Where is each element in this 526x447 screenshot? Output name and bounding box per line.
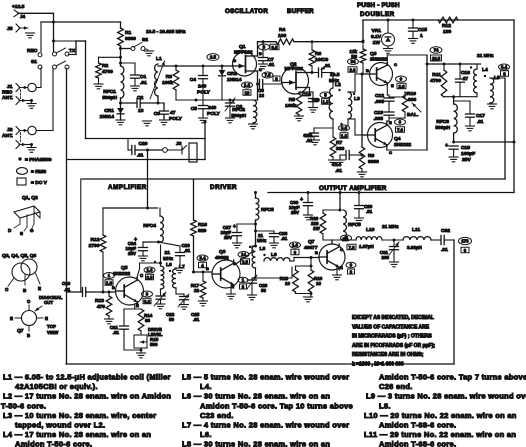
svg-text:Q1: Q1 [239,44,246,50]
svg-text:.01: .01 [441,247,448,253]
svg-text:RFC2: RFC2 [232,107,245,113]
svg-text:C: C [389,150,392,155]
svg-text:13: 13 [138,108,144,114]
svg-text:50: 50 [261,288,267,293]
svg-text:7.6: 7.6 [397,127,404,132]
svg-text:21: 21 [165,250,171,256]
svg-text:S2: S2 [142,37,148,43]
svg-text:1.8: 1.8 [341,133,348,138]
svg-text:.005: .005 [373,116,383,122]
svg-text:9.1V: 9.1V [371,34,382,40]
svg-text:L8.: L8. [379,401,391,410]
svg-text:CR1: CR1 [104,108,114,114]
svg-text:7.6: 7.6 [349,245,356,250]
svg-text:R4: R4 [279,27,286,33]
svg-text:1.3: 1.3 [147,268,154,273]
svg-text:R2: R2 [102,63,109,69]
svg-text:DOUBLER: DOUBLER [360,11,395,18]
svg-text:E: E [10,316,13,321]
svg-text:330: 330 [336,146,344,152]
svg-text:+: + [445,143,448,149]
svg-text:10: 10 [245,90,250,95]
svg-text:280: 280 [381,255,389,260]
svg-text:Amidon T-68-6 core.: Amidon T-68-6 core. [379,421,456,430]
svg-text:L2: L2 [335,82,341,88]
svg-text:900: 900 [408,97,416,103]
svg-text:40082: 40082 [215,255,229,261]
svg-text:S1: S1 [31,59,37,65]
svg-text:240: 240 [208,105,216,111]
svg-text:2.5: 2.5 [210,55,217,60]
svg-text:C: C [140,273,143,278]
svg-text:74: 74 [434,48,439,53]
svg-text:L8: L8 [260,246,266,252]
svg-text:RFC3: RFC3 [436,119,449,125]
svg-text:6800: 6800 [125,36,136,42]
svg-text:100k: 100k [162,80,173,86]
svg-text:C10: C10 [302,92,311,98]
svg-text:L7 — 4 turns No. 28 enam. wire: L7 — 4 turns No. 28 enam. wire wound ove… [182,421,349,430]
svg-text:MPF102: MPF102 [234,50,253,56]
svg-text:E: E [391,83,394,88]
svg-text:173: 173 [461,239,469,244]
svg-text:Amidon T-68-6 core.: Amidon T-68-6 core. [379,440,456,447]
svg-text:Amidon T-50-6 core. Tap 7 tur: Amidon T-50-6 core. Tap 7 turns above [379,373,526,382]
svg-text:100k: 100k [285,103,296,109]
svg-text:J1: J1 [7,84,13,90]
svg-text:R10: R10 [407,91,416,97]
svg-text:500: 500 [150,342,158,347]
svg-text:C2: C2 [137,95,144,101]
svg-text:21 MHz: 21 MHz [382,224,399,230]
svg-text:1.0: 1.0 [292,243,299,248]
svg-text:L4: L4 [482,67,488,73]
svg-text:2.6: 2.6 [399,84,406,89]
svg-text:C: C [27,299,30,304]
svg-text:3.4: 3.4 [501,65,508,70]
svg-text:4700: 4700 [430,78,441,84]
svg-text:C13: C13 [374,110,383,116]
svg-text:MPF102: MPF102 [285,66,304,72]
svg-text:.01: .01 [184,248,191,253]
svg-text:2.5: 2.5 [147,275,154,280]
svg-text:500μH: 500μH [102,95,117,101]
svg-text:3.66μH: 3.66μH [407,245,422,250]
svg-text:500μH: 500μH [231,113,246,119]
svg-text:R7: R7 [336,140,343,146]
svg-text:1N914: 1N914 [227,77,242,83]
svg-text:R11: R11 [432,72,441,78]
svg-text:C26 end.: C26 end. [379,382,413,391]
svg-text:REC: REC [27,48,38,54]
svg-text:100: 100 [278,33,286,39]
svg-text:C: C [340,247,343,252]
svg-text:47: 47 [170,110,176,116]
svg-text:RFC4: RFC4 [143,223,156,229]
svg-text:R13: R13 [95,298,104,304]
svg-text:21 MHz: 21 MHz [477,53,494,59]
svg-text:RFC5: RFC5 [261,207,274,213]
svg-text:L1 — 6.05- to 12.5-μH adjustab: L1 — 6.05- to 12.5-μH adjustable coil (M… [3,373,171,382]
svg-text:POLY: POLY [197,90,211,96]
svg-text:DRIVER: DRIVER [210,184,237,191]
svg-text:C5: C5 [191,106,198,112]
svg-text:G: G [233,58,236,63]
svg-text:1N914: 1N914 [100,114,115,120]
svg-text:.01: .01 [137,153,144,158]
svg-text:J4: J4 [20,14,26,19]
svg-text:3.2: 3.2 [144,299,151,304]
svg-text:R3: R3 [166,74,173,80]
svg-text:VIEW: VIEW [47,330,59,335]
svg-text:C3: C3 [154,111,161,117]
svg-text:J2: J2 [7,127,13,133]
svg-text:Q4: Q4 [394,136,401,142]
svg-text:41: 41 [344,236,349,241]
svg-text:k =1000 , M=1 000 000: k =1000 , M=1 000 000 [352,362,404,368]
svg-text:Amidon T-50-6 core. Tap 10 tu: Amidon T-50-6 core. Tap 10 turns above [200,401,353,410]
svg-text:+: + [233,224,236,230]
svg-text:VR1: VR1 [371,28,381,34]
svg-text:10: 10 [316,281,322,286]
svg-text:IN MICROFARADS (μF) ; OTHERS: IN MICROFARADS (μF) ; OTHERS [352,334,432,340]
svg-text:L3 — 10 turns No. 28 enam. wir: L3 — 10 turns No. 28 enam. wire, center [3,411,156,420]
svg-text:.01: .01 [366,209,373,214]
svg-text:C: C [233,261,236,266]
svg-text:7.5: 7.5 [265,73,272,78]
svg-text:27: 27 [463,76,469,81]
svg-text:= RMS: = RMS [31,169,47,175]
svg-text:.01: .01 [113,330,120,335]
svg-text:OUTPUT AMPLIFIER: OUTPUT AMPLIFIER [319,185,387,192]
svg-text:B: B [27,333,30,338]
svg-text:180: 180 [443,29,451,35]
svg-text:C20: C20 [139,141,148,147]
svg-text:AMPLIFIER: AMPLIFIER [108,184,147,191]
svg-text:L4.: L4. [200,382,212,391]
svg-text:B: B [366,68,369,73]
svg-text:L6.: L6. [200,430,212,439]
svg-text:L2 — 17 turns No. 28 enam. wir: L2 — 17 turns No. 28 enam. wire on Amido… [3,392,171,401]
svg-text:3.4: 3.4 [200,256,207,261]
svg-text:+12.5: +12.5 [12,4,25,10]
svg-text:R6: R6 [315,51,322,57]
svg-text:L8 — 30 turns No. 28 enam. wir: L8 — 30 turns No. 28 enam. wire on an [182,440,330,447]
svg-text:820: 820 [198,228,206,234]
svg-text:C32: C32 [441,228,450,234]
svg-text:C15: C15 [418,27,427,33]
svg-text:C18: C18 [461,145,470,151]
svg-text:R16: R16 [198,222,207,228]
svg-text:REC: REC [2,90,13,96]
svg-text:500μH: 500μH [435,125,450,131]
svg-text:2.8: 2.8 [350,67,357,72]
svg-text:6800: 6800 [368,159,379,165]
svg-text:Q7: Q7 [17,328,24,334]
svg-text:= PHASING: = PHASING [25,157,52,163]
svg-text:L11: L11 [412,227,420,233]
svg-text:R12: R12 [91,237,100,243]
svg-text:E: E [38,286,41,291]
svg-text:OSCILLATOR: OSCILLATOR [225,8,268,15]
svg-text:2N2222: 2N2222 [113,271,130,277]
svg-text:RESISTANCES ARE IN OHMS;: RESISTANCES ARE IN OHMS; [352,352,424,358]
svg-text:L3: L3 [354,96,360,102]
svg-text:CUT: CUT [44,300,53,305]
svg-text:Q3, Q4, Q5, Q6: Q3, Q4, Q5, Q6 [2,253,37,259]
svg-text:.01: .01 [64,287,71,292]
svg-text:1W: 1W [313,226,321,231]
svg-text:C19: C19 [62,281,71,286]
svg-text:50: 50 [169,317,175,322]
svg-text:ARE IN PICOFARADS (pF OR μμF);: ARE IN PICOFARADS (pF OR μμF); [352,343,435,349]
svg-text:E: E [136,303,139,308]
svg-text:ANT.: ANT. [2,133,14,139]
svg-text:G: G [30,228,34,233]
svg-text:1.2: 1.2 [244,83,251,88]
svg-text:E: E [340,265,343,270]
svg-text:ANT.: ANT. [2,95,14,101]
svg-text:2N2222: 2N2222 [394,142,411,148]
svg-text:C12: C12 [375,93,384,99]
svg-text:L10: L10 [366,227,375,233]
svg-text:POLY: POLY [169,116,183,122]
svg-text:1: 1 [420,33,423,39]
svg-text:= DC V: = DC V [31,180,48,186]
svg-text:Q5: Q5 [121,265,128,271]
svg-text:B: B [315,250,318,255]
svg-text:L5 — 5 turns No. 28 enam. wire: L5 — 5 turns No. 28 enam. wire wound ove… [182,373,349,382]
svg-text:VALUES OF CAPACITANCE ARE: VALUES OF CAPACITANCE ARE [352,324,430,330]
svg-text:34: 34 [351,59,356,64]
svg-text:L10 — 20 turns No. 22 enam. wi: L10 — 20 turns No. 22 enam. wire on an [364,411,517,420]
svg-text:C1: C1 [140,74,147,80]
svg-text:.01: .01 [281,236,288,241]
svg-text:1W: 1W [373,40,381,46]
svg-text:TOP: TOP [47,324,56,329]
svg-text:D: D [259,51,262,56]
svg-text:Amidon T-50-6 core.: Amidon T-50-6 core. [15,440,92,447]
svg-text:.01: .01 [324,63,331,68]
svg-text:1.97μH: 1.97μH [359,244,374,249]
svg-text:BUFFER: BUFFER [287,8,314,15]
svg-text:R1: R1 [125,30,132,36]
svg-text:L6: L6 [166,262,172,268]
svg-text:POLY: POLY [207,111,221,117]
svg-text:tapped, wound over L2.: tapped, wound over L2. [15,421,105,430]
svg-text:S: S [20,231,23,236]
svg-text:RFC1: RFC1 [103,89,116,95]
svg-text:.01: .01 [335,168,342,174]
svg-text:4700: 4700 [102,69,113,75]
svg-text:25V: 25V [291,210,299,215]
svg-text:MHz: MHz [163,256,174,262]
svg-text:L7: L7 [179,264,185,270]
svg-text:2N2222: 2N2222 [370,57,387,63]
svg-text:10.5: 10.5 [330,72,340,78]
svg-text:Q3: Q3 [370,51,377,57]
svg-text:L11 — 29 turns No. 22 enam. wi: L11 — 29 turns No. 22 enam. wire on an [364,430,516,439]
svg-text:13: 13 [259,93,265,98]
svg-text:2700: 2700 [89,243,100,249]
svg-text:1.8: 1.8 [323,99,330,104]
svg-text:L4 — 17 turns No. 28 enam. wir: L4 — 17 turns No. 28 enam. wire on an [3,430,151,439]
svg-text:Q6: Q6 [219,249,226,255]
svg-text:2.5: 2.5 [242,259,249,264]
svg-text:22: 22 [194,288,200,293]
svg-text:C4: C4 [190,77,197,83]
svg-text:9.5: 9.5 [272,45,279,50]
svg-text:3.6: 3.6 [341,126,348,131]
svg-text:42A105CBI or equiv.).: 42A105CBI or equiv.). [15,382,98,391]
svg-text:C23 end.: C23 end. [200,411,234,420]
svg-text:240: 240 [198,84,206,90]
svg-text:C: C [394,62,397,67]
svg-text:10.5 - 10.625 MHz: 10.5 - 10.625 MHz [146,29,186,35]
svg-text:.01: .01 [268,62,275,67]
svg-text:MHz: MHz [257,238,267,243]
svg-text:J5: J5 [7,26,13,32]
svg-text:EXCEPT AS INDICATED, DECIMAL: EXCEPT AS INDICATED, DECIMAL [352,315,434,321]
svg-text:TX: TX [69,48,76,54]
svg-text:.005: .005 [374,99,384,105]
svg-text:L1: L1 [156,56,162,62]
svg-text:100μF: 100μF [461,151,475,157]
svg-text:68: 68 [145,318,151,323]
svg-text:.01: .01 [140,80,147,86]
svg-text:J3: J3 [176,141,182,147]
svg-text:R9: R9 [368,153,375,159]
svg-text:470: 470 [97,304,105,310]
svg-text:E: E [45,316,48,321]
svg-text:10: 10 [285,281,291,286]
svg-text:R12: R12 [442,23,451,29]
svg-text:S: S [259,67,262,72]
svg-text:L6 — 30 turns No. 28 enam. wir: L6 — 30 turns No. 28 enam. wire on an [182,392,330,401]
svg-text:25V: 25V [224,235,232,240]
svg-text:1.9: 1.9 [106,280,113,285]
svg-text:T-50-6 core.: T-50-6 core. [1,401,46,410]
svg-text:18.5: 18.5 [432,56,441,61]
svg-text:L9 — 3 turns No. 28 enam. wire: L9 — 3 turns No. 28 enam. wire wound ove… [366,392,526,401]
svg-text:25V: 25V [128,251,136,256]
svg-text:PUSH - PUSH: PUSH - PUSH [357,2,400,9]
svg-text:.01: .01 [193,317,200,322]
svg-text:+: + [300,197,303,203]
svg-text:.01: .01 [477,119,484,124]
svg-text:Q1, Q2: Q1, Q2 [22,195,38,201]
svg-text:Q7: Q7 [308,239,315,245]
svg-text:25V: 25V [462,157,471,163]
svg-text:L9: L9 [271,252,277,258]
svg-text:R5: R5 [289,97,296,103]
svg-text:BAL.: BAL. [407,112,419,118]
